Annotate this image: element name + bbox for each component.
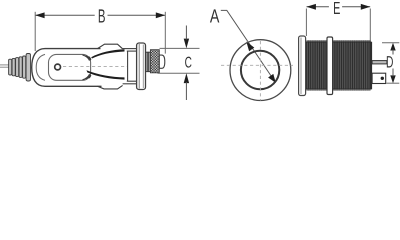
svg-text:D: D (386, 53, 393, 71)
dimension E left arrow (307, 4, 316, 10)
plug cable (0, 65, 9, 67)
socket mounting nut (327, 37, 333, 95)
dimension B line (35, 14, 165, 16)
dimension C top arrow (184, 39, 189, 49)
plug front flange (137, 43, 146, 90)
plug front flange inner line left (138, 44, 140, 89)
bottom spring clip dark band (87, 70, 125, 79)
socket threaded barrel (306, 42, 371, 90)
plug indicator circle (55, 64, 61, 70)
dimension B left extension line (34, 12, 36, 51)
socket bottom terminal hole (381, 77, 384, 80)
window corner hatching (83, 55, 91, 80)
socket barrel bottom edge (306, 88, 371, 90)
dimension E right arrow (361, 4, 370, 10)
socket face horizontal centerline (221, 64, 293, 66)
svg-text:E: E (333, 0, 340, 18)
svg-text:C: C (185, 55, 192, 72)
dimension E right extension line (369, 9, 371, 42)
dimension D bottom extension line (387, 82, 400, 84)
dimension D top extension line (382, 42, 399, 44)
dimension E left extension line (305, 9, 307, 37)
svg-text:B: B (98, 6, 106, 27)
dimension D down arrow (390, 75, 395, 83)
dimension D up arrow (390, 43, 395, 51)
top spring clip bump outline (98, 44, 123, 49)
socket face outer circle (230, 40, 291, 101)
svg-text:A: A (210, 6, 220, 27)
leader arrowhead at outer circle (246, 42, 254, 52)
plug body inner window (49, 54, 91, 80)
plug body outline (32, 49, 102, 87)
dimension B right extension line (164, 12, 166, 54)
plug front flange inner line right (142, 45, 144, 89)
plug neck ribs (146, 52, 151, 71)
dimension C bottom arrow (184, 73, 189, 83)
socket barrel rear edge (370, 42, 372, 90)
plug tip button (159, 55, 165, 68)
socket bezel inner line (300, 38, 302, 95)
socket thread crests top (307, 40, 371, 42)
socket thread crests bottom (307, 89, 371, 91)
leader arrowhead at inner circle (268, 74, 276, 83)
plug knurled tip (150, 50, 159, 73)
dimension C bottom extension line (158, 72, 200, 74)
plug centerline (63, 65, 127, 67)
plug body inner dome line (36, 54, 45, 80)
dimension B left arrow (35, 12, 44, 18)
socket face vertical centerline (259, 41, 261, 101)
dimension E line (307, 6, 371, 8)
socket bottom terminal (372, 73, 386, 83)
plug strain relief ribs (9, 54, 31, 82)
leader line A (221, 10, 276, 82)
socket face inner circle (241, 51, 279, 89)
top spring clip dark band (91, 49, 124, 58)
socket barrel top edge (306, 41, 371, 43)
dimension B right arrow (156, 12, 165, 18)
plug front shaft (123, 49, 137, 84)
dimension C top extension line (160, 47, 200, 49)
socket top terminal (372, 61, 387, 64)
socket bezel flange (299, 36, 306, 96)
bottom spring clip bump outline (98, 85, 123, 89)
